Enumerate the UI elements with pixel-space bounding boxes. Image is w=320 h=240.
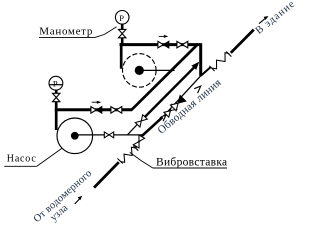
wire: elbow vertical (x=200.7) (199, 43, 202, 76)
vibration insert upper: zigzag (212, 53, 229, 69)
valve under P1 (vertical bowtie) (119, 29, 126, 37)
wire: outlet thick segment (231, 30, 254, 53)
manometer P1 upper: stem (121, 24, 124, 29)
wire: lower discharge pipe (y=109.8) (55, 108, 132, 111)
wire: upper discharge pipe (y=44.6) (120, 43, 200, 46)
flow arrow to building (259, 18, 265, 23)
wire: main B thin under valves (164, 76, 201, 116)
vibration insert upper: end tick (209, 66, 214, 71)
svg-text:Р: Р (119, 13, 124, 23)
pump U2 lower: hub dot (71, 132, 79, 140)
flow arrow open on B (upper) (194, 86, 201, 93)
pump U2 lower: circle (57, 118, 93, 154)
wire: bypass line M (thick part) (145, 68, 194, 117)
svg-text:Р: Р (53, 78, 58, 88)
gate valve on inlet B (rotated) (133, 135, 144, 148)
pump U1 upper: dashed circle (123, 54, 157, 88)
manometer P1 upper: circle (115, 10, 129, 24)
wire: B through valve (136, 135, 143, 147)
pump U1 upper: hub dot (135, 66, 144, 75)
gate valve on B (rotated) (164, 104, 177, 117)
pump U1 upper: shaft line (139, 69, 174, 71)
gate valve on bypass (rotated) (135, 115, 147, 127)
gate valve on upper discharge pipe (177, 41, 188, 48)
manometer P1 upper: stem to pipe (121, 38, 124, 44)
vibration insert upper: end tick (226, 52, 231, 57)
vibration insert lower: end tick (118, 159, 123, 164)
flow arrow above check valve (lower) (92, 101, 100, 103)
wire: B junction to upper zigzag (201, 67, 211, 76)
check valve on B (rotated, upper filled) (170, 95, 185, 110)
vibration insert lower: zigzag (121, 147, 136, 162)
manometer P2 lower: diameter line (49, 84, 63, 86)
wire: lower pump riser vertical (55, 102, 58, 130)
wire: upper pump riser vertical (120, 43, 123, 68)
flow arrow from water meter unit (75, 199, 80, 204)
wire: riser diagonal A (lower discharge to elbow) (131, 44, 198, 110)
manometer P2 lower: stem (55, 90, 58, 93)
wire: main B thick mid segment (142, 117, 162, 135)
wire: bypass line M (thin part) (128, 124, 138, 135)
wire: main inlet B thick lower segment (94, 162, 119, 187)
gate valve on lower discharge pipe (111, 107, 122, 114)
svg-text:Насос: Насос (7, 153, 37, 164)
check valve on upper discharge pipe (158, 41, 169, 48)
svg-text:Манометр: Манометр (39, 25, 93, 37)
flow arrow open on B (lower) (160, 114, 166, 121)
flow arrowhead at bypass top (191, 62, 199, 70)
gate valve on suction line (104, 132, 113, 138)
check valve on lower discharge pipe (91, 107, 102, 114)
manometer P2 lower: circle (49, 76, 63, 90)
wire: lower pump suction line (75, 134, 143, 136)
svg-text:Вибровставка: Вибровставка (156, 157, 227, 169)
flow arrow above check valve (upper) (159, 35, 167, 37)
vibration insert lower: end tick (133, 146, 138, 151)
valve under P2 (vertical bowtie) (53, 93, 60, 101)
